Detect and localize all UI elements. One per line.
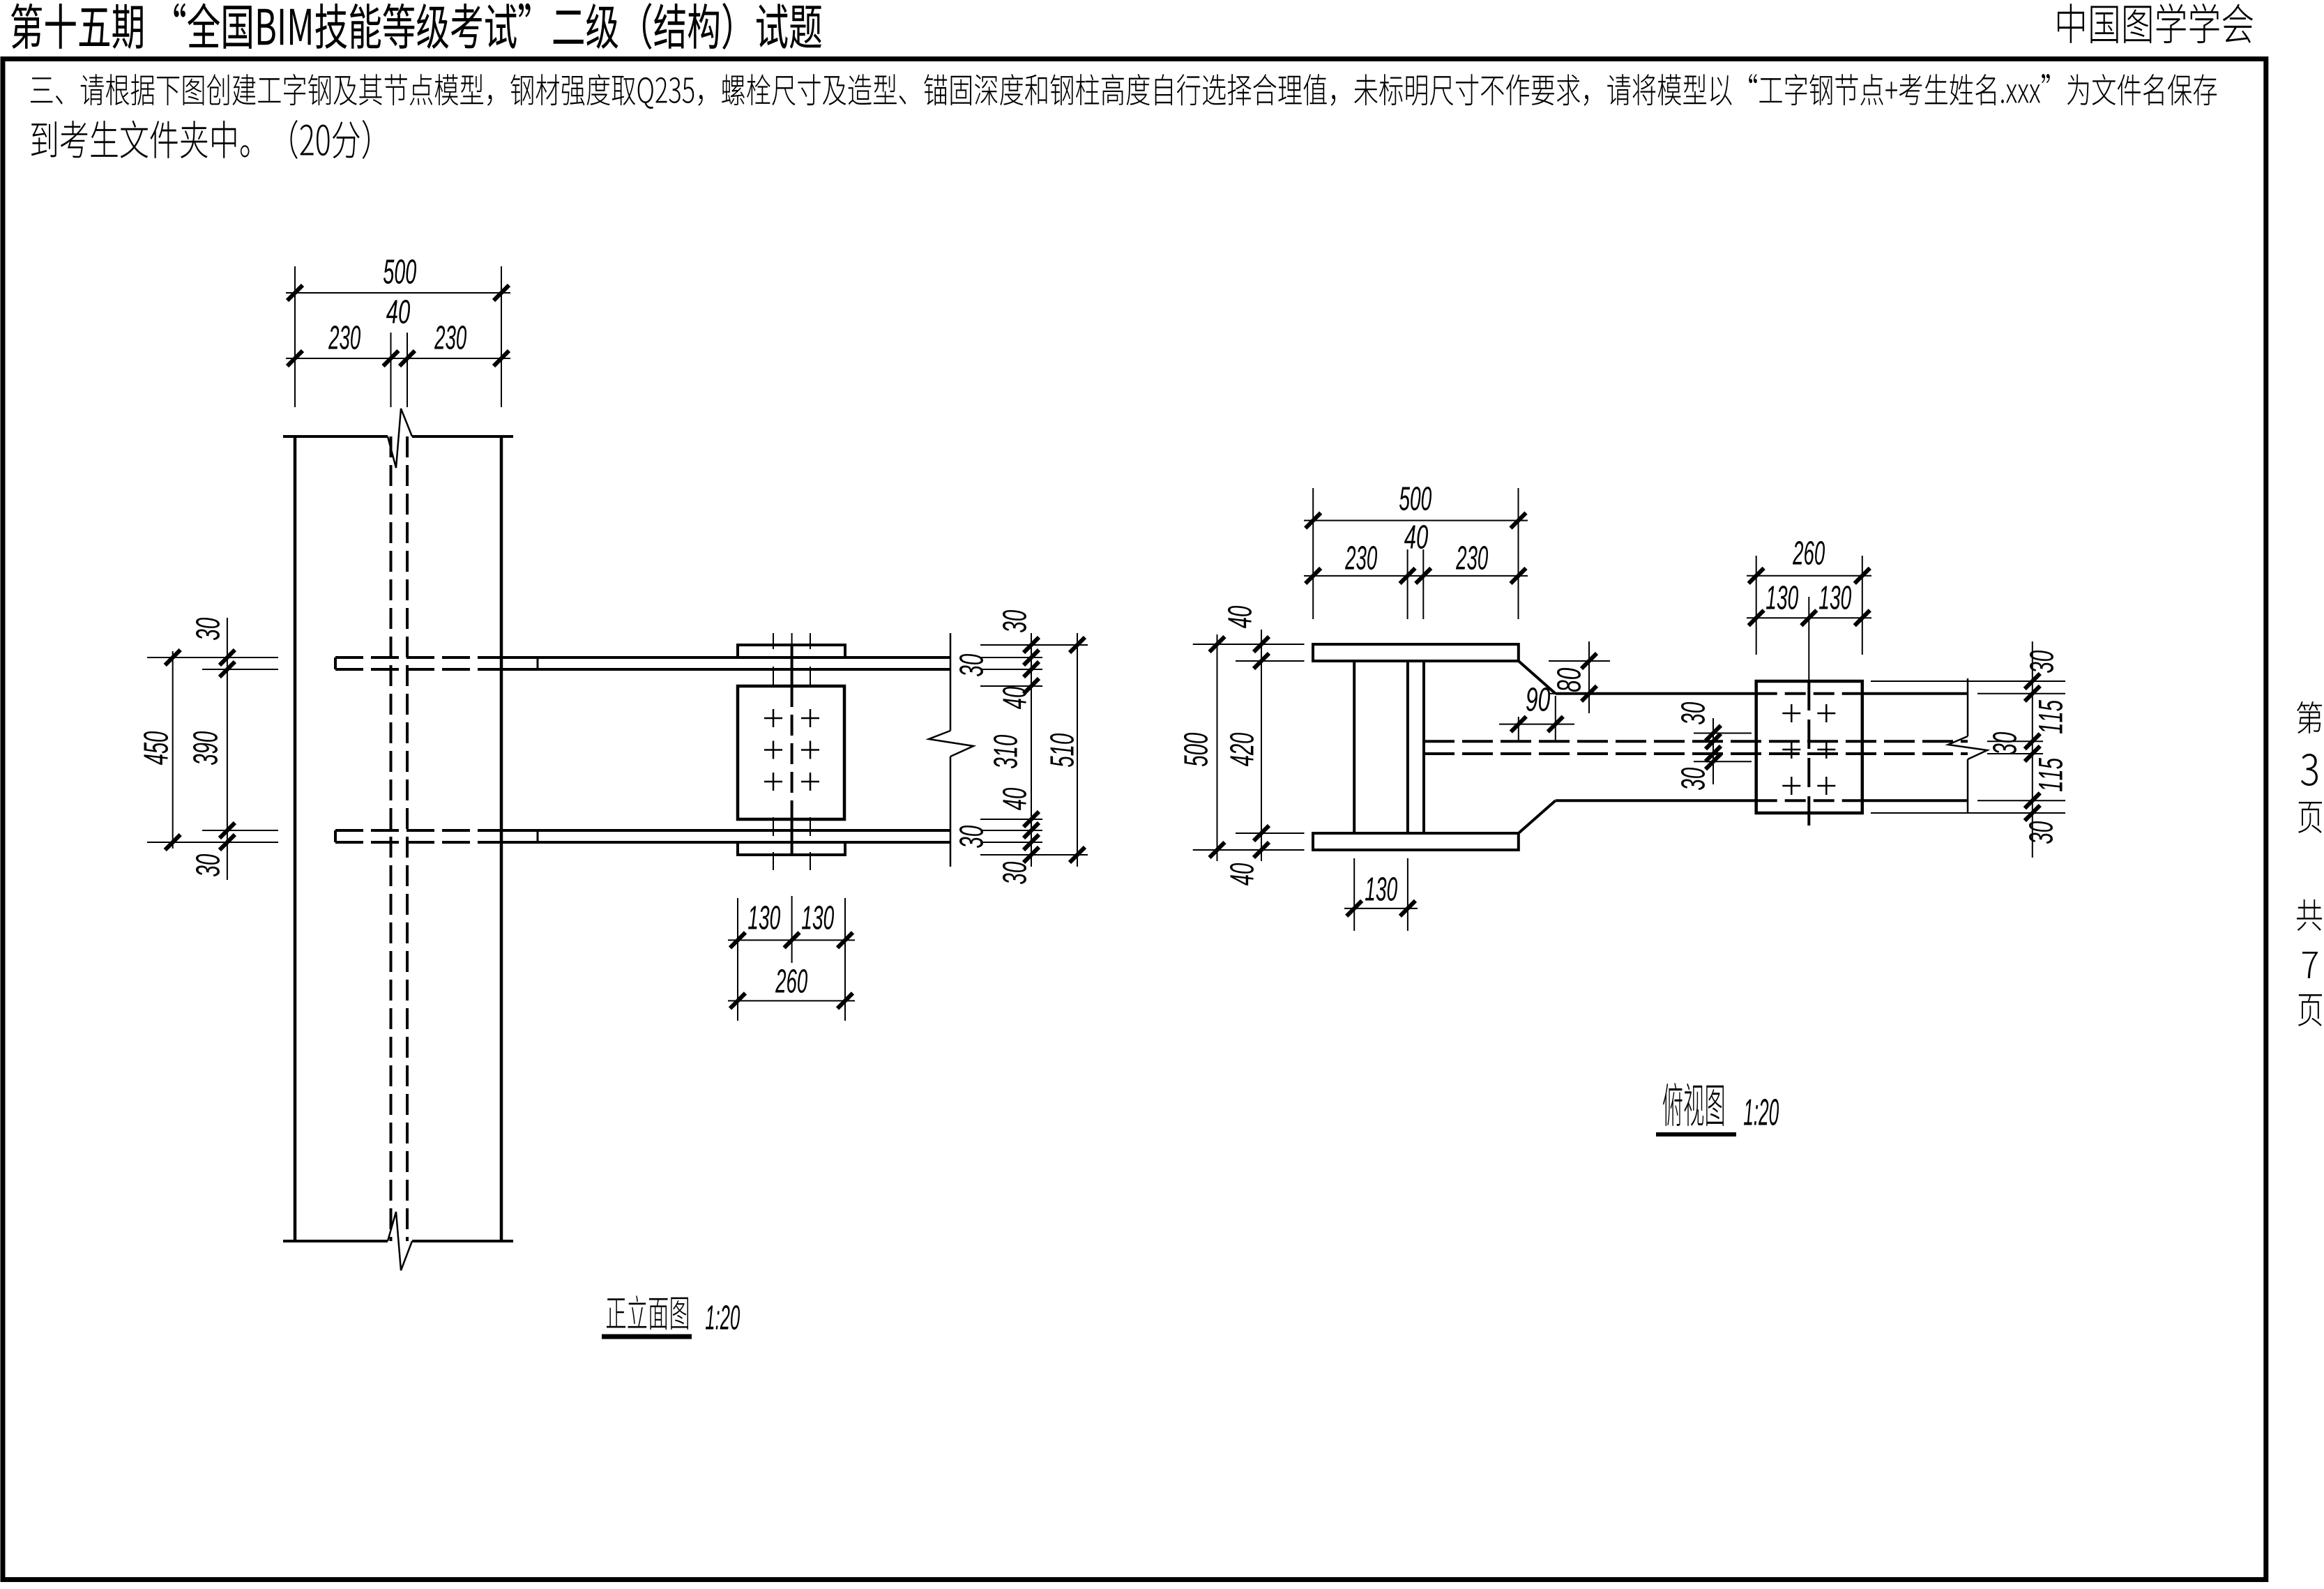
dim text 80 [1557, 668, 1581, 692]
dim line 90 [1499, 724, 1574, 725]
ext line bottom flange bottom left [147, 842, 278, 843]
dim line 420 plan [1261, 630, 1262, 861]
joint line through top flange [791, 645, 793, 686]
web splice plate [738, 686, 844, 819]
ext line plan beam end [1422, 549, 1424, 619]
page label ye [2298, 802, 2322, 833]
column right edge [500, 436, 503, 1241]
dim text 260 [775, 969, 807, 993]
problem text line2 [31, 120, 370, 159]
ext line plate bottom right [1871, 812, 2065, 814]
view label front elevation [607, 1295, 688, 1330]
dim text 500 [383, 259, 416, 284]
beam flange taper top [1519, 661, 1556, 694]
dim text 115 b [2039, 758, 2063, 791]
plan break line upper [1967, 678, 1969, 736]
ext line beam bottom right [1977, 800, 2065, 801]
dim text 40 [386, 300, 410, 324]
beam top flange top line [501, 656, 950, 659]
beam top flange left cap [334, 657, 337, 669]
dim line 500 plan left [1217, 634, 1218, 861]
top cover plate [738, 645, 845, 657]
ext line bottom flange top left [202, 830, 278, 831]
dim line 230/40/230 [286, 358, 510, 359]
dim line 80 [1588, 641, 1590, 713]
page label di [2297, 701, 2322, 733]
column bottom line right part [412, 1240, 513, 1242]
joint line through bottom flange [791, 819, 793, 855]
page label ye 2 [2298, 994, 2322, 1026]
dim text 130 plan left [1766, 586, 1798, 609]
problem text line1 [31, 74, 2217, 109]
beam top edge hidden under plate [1756, 692, 1862, 695]
beam break line upper [950, 633, 952, 731]
ext line column left [294, 266, 296, 407]
dim line 260 plan [1747, 575, 1871, 577]
dim text 30 e [959, 826, 983, 848]
beam end edge at column [1422, 661, 1425, 833]
ext line web30 top [1694, 733, 1752, 734]
ext line 80 bottom [1549, 693, 1610, 694]
ext line web right [407, 333, 408, 407]
ext line 90 right [1555, 696, 1556, 741]
column bottom break zigzag [388, 1212, 412, 1270]
ext line plate left [1756, 556, 1757, 655]
beam bottom edge plan right [1862, 799, 1968, 802]
bolt column centerline bottom right b [810, 852, 811, 870]
column top line left part [283, 435, 388, 438]
dim text 500 plan left [1184, 733, 1208, 766]
dim text 450 [144, 731, 168, 765]
ext line splice mid [791, 896, 793, 963]
dim line 500 plan [1304, 520, 1528, 522]
dim text 40 plan bottom-left [1230, 863, 1254, 885]
column web hidden line left [390, 436, 393, 1241]
dim text 115 a [2039, 700, 2063, 733]
dim text 40 plan [1404, 525, 1428, 549]
dim text 130 left [748, 906, 780, 929]
plate centerline dashed [1807, 681, 1810, 831]
ext line plan flange bottom [1193, 849, 1305, 851]
joint line dashed in plate [791, 686, 793, 819]
ext line flange top left [147, 657, 278, 658]
beam bottom flange left cap [334, 830, 337, 842]
dim line 130/130 plan [1747, 617, 1871, 618]
beam break line lower [950, 757, 952, 867]
column top break zigzag [388, 409, 412, 468]
dim text 510 [1050, 733, 1074, 767]
ext line web top right [1987, 740, 2043, 742]
ext line flange bottom left [202, 669, 278, 670]
column bottom flange plan [1313, 833, 1519, 850]
bolt column centerline bottom left b [773, 852, 774, 870]
column top flange plan [1313, 644, 1519, 661]
ext line y=1226 [980, 854, 1088, 856]
view scale 1:20 [706, 1305, 740, 1330]
dim text 130 plan right [1819, 586, 1851, 609]
dim text 30 plan c [2029, 821, 2053, 844]
dim text 30 a [1003, 610, 1026, 632]
ext line plate right [1862, 556, 1863, 655]
ext line y=984 [980, 685, 1042, 687]
dim text 310 [994, 735, 1017, 768]
beam top edge plan [1556, 692, 1756, 695]
beam bottom flange top line [501, 829, 950, 832]
ext line plate top right [1871, 681, 2065, 682]
dim line 130 plan bottom [1344, 908, 1418, 909]
view label plan [1663, 1083, 1724, 1126]
beam bottom flange top line hidden part [335, 829, 501, 832]
plan label underline [1656, 1132, 1736, 1136]
dim text 500 plan [1399, 487, 1431, 510]
dim text 40 d [1003, 788, 1026, 810]
ext line y=960 [980, 669, 1042, 670]
dim text 30 b [959, 654, 983, 676]
dim text 230 left [328, 326, 360, 349]
column web line right plan [1406, 661, 1409, 833]
ext line splice right [844, 898, 846, 1021]
dim text 30 bottom-left [196, 854, 220, 876]
beam top flange bottom line hidden part [335, 668, 501, 671]
page label gong [2297, 899, 2322, 931]
dim line 450 [172, 651, 174, 849]
bolts in plan [1782, 713, 1800, 715]
dim text 30 top-left [196, 618, 220, 640]
ext line web30 bottom [1694, 761, 1752, 762]
beam top flange haunch tick [537, 657, 539, 669]
dim line 130/130 [728, 939, 855, 941]
ext line y=1191 [980, 830, 1042, 831]
page number 7 [2302, 952, 2318, 978]
dim text 390 [193, 731, 218, 765]
bolt column centerline top left b [773, 667, 774, 686]
ext line plan col right [1518, 488, 1519, 619]
beam bottom flange bottom line [501, 841, 950, 844]
ext line plan col left [1312, 488, 1314, 619]
header right org name [2058, 3, 2253, 43]
column top line right part [412, 435, 513, 438]
plan break zigzag [1948, 736, 1987, 759]
dim text 260 plan [1793, 541, 1825, 565]
bolt column centerline top right a [810, 633, 811, 649]
bolt column centerline bottom left a [773, 817, 774, 836]
dim line 260 [728, 1000, 855, 1001]
ext line plan flange inner top [1236, 660, 1305, 662]
ext line plan web [1407, 549, 1408, 619]
dim text 30 f [1003, 862, 1026, 884]
dim text 30 web bottom [1681, 768, 1705, 790]
beam top flange top line hidden part [335, 656, 501, 659]
dim text 30 web top [1681, 702, 1705, 724]
plan break line lower [1967, 759, 1969, 813]
beam bottom edge hidden under plate [1756, 799, 1862, 802]
dim text 230 plan left [1345, 546, 1377, 570]
ext line y=1175 [980, 819, 1042, 820]
page number 3 [2301, 754, 2318, 786]
ext line 90 left [1518, 717, 1519, 741]
bolts in web splice plate [764, 717, 782, 720]
view label underline [602, 1335, 692, 1339]
joint centerline above plate [791, 633, 793, 645]
column web hidden line right [406, 436, 409, 1241]
ext line web bottom right [1987, 753, 2043, 754]
ext line beam top right [1977, 693, 2065, 694]
bolt column centerline bottom right a [810, 817, 811, 836]
ext line web left [390, 333, 392, 407]
beam web hidden line bottom [1424, 752, 1968, 755]
dim text 30 plan b [1993, 732, 2017, 754]
dim text 230 plan right [1456, 546, 1488, 570]
beam break zigzag [929, 731, 973, 757]
dim text 30 plan a [2030, 651, 2053, 673]
ext line y=1208 [980, 842, 1042, 843]
bottom cover plate [738, 842, 845, 855]
dim line 390/30/30 [227, 618, 228, 880]
beam top edge plan right [1862, 692, 1968, 695]
dim text 420 [1230, 733, 1254, 766]
bolt column centerline top right b [810, 667, 811, 686]
beam bottom flange bottom line hidden part [335, 841, 501, 844]
column web line left plan [1353, 661, 1355, 833]
dim text 90 [1526, 687, 1550, 711]
dim text 40 c [1003, 687, 1026, 709]
header title [11, 3, 821, 50]
dim text 230 right [434, 326, 466, 349]
beam bottom flange haunch tick [537, 830, 539, 842]
beam bottom edge plan [1556, 799, 1756, 802]
splice cover plate plan [1756, 681, 1862, 813]
dim chain line plan right [2032, 641, 2033, 858]
ext line 80 top [1549, 660, 1610, 662]
column bottom line left part [283, 1240, 388, 1242]
ext line splice left [737, 898, 738, 1021]
dim chain line inner [1031, 633, 1032, 867]
ext line col web right [1407, 858, 1408, 931]
dim text 130 right [802, 906, 834, 929]
ext line plan flange top [1193, 644, 1305, 645]
plate centerline ext [1808, 597, 1809, 681]
dim line 500 [286, 292, 510, 294]
ext line column right [501, 266, 502, 407]
ext line col web left [1353, 858, 1355, 931]
bolt column centerline top left a [773, 633, 774, 649]
dim text 40 plan top-left [1228, 606, 1252, 628]
column left edge [294, 436, 297, 1241]
ext line plan flange inner bottom [1236, 832, 1305, 834]
ext line y=943 [980, 657, 1042, 658]
dim line 230/40/230 plan [1304, 575, 1528, 577]
dim line web 30/30 [1712, 718, 1714, 784]
dim text 130 col web [1365, 877, 1397, 901]
plan scale 1:20 [1744, 1099, 1779, 1125]
beam top flange bottom line [501, 668, 950, 671]
beam web hidden line top [1424, 740, 1968, 743]
ext line y=925 [980, 644, 1088, 646]
dim line 510 outer [1077, 633, 1078, 867]
beam flange taper bottom [1519, 800, 1556, 833]
